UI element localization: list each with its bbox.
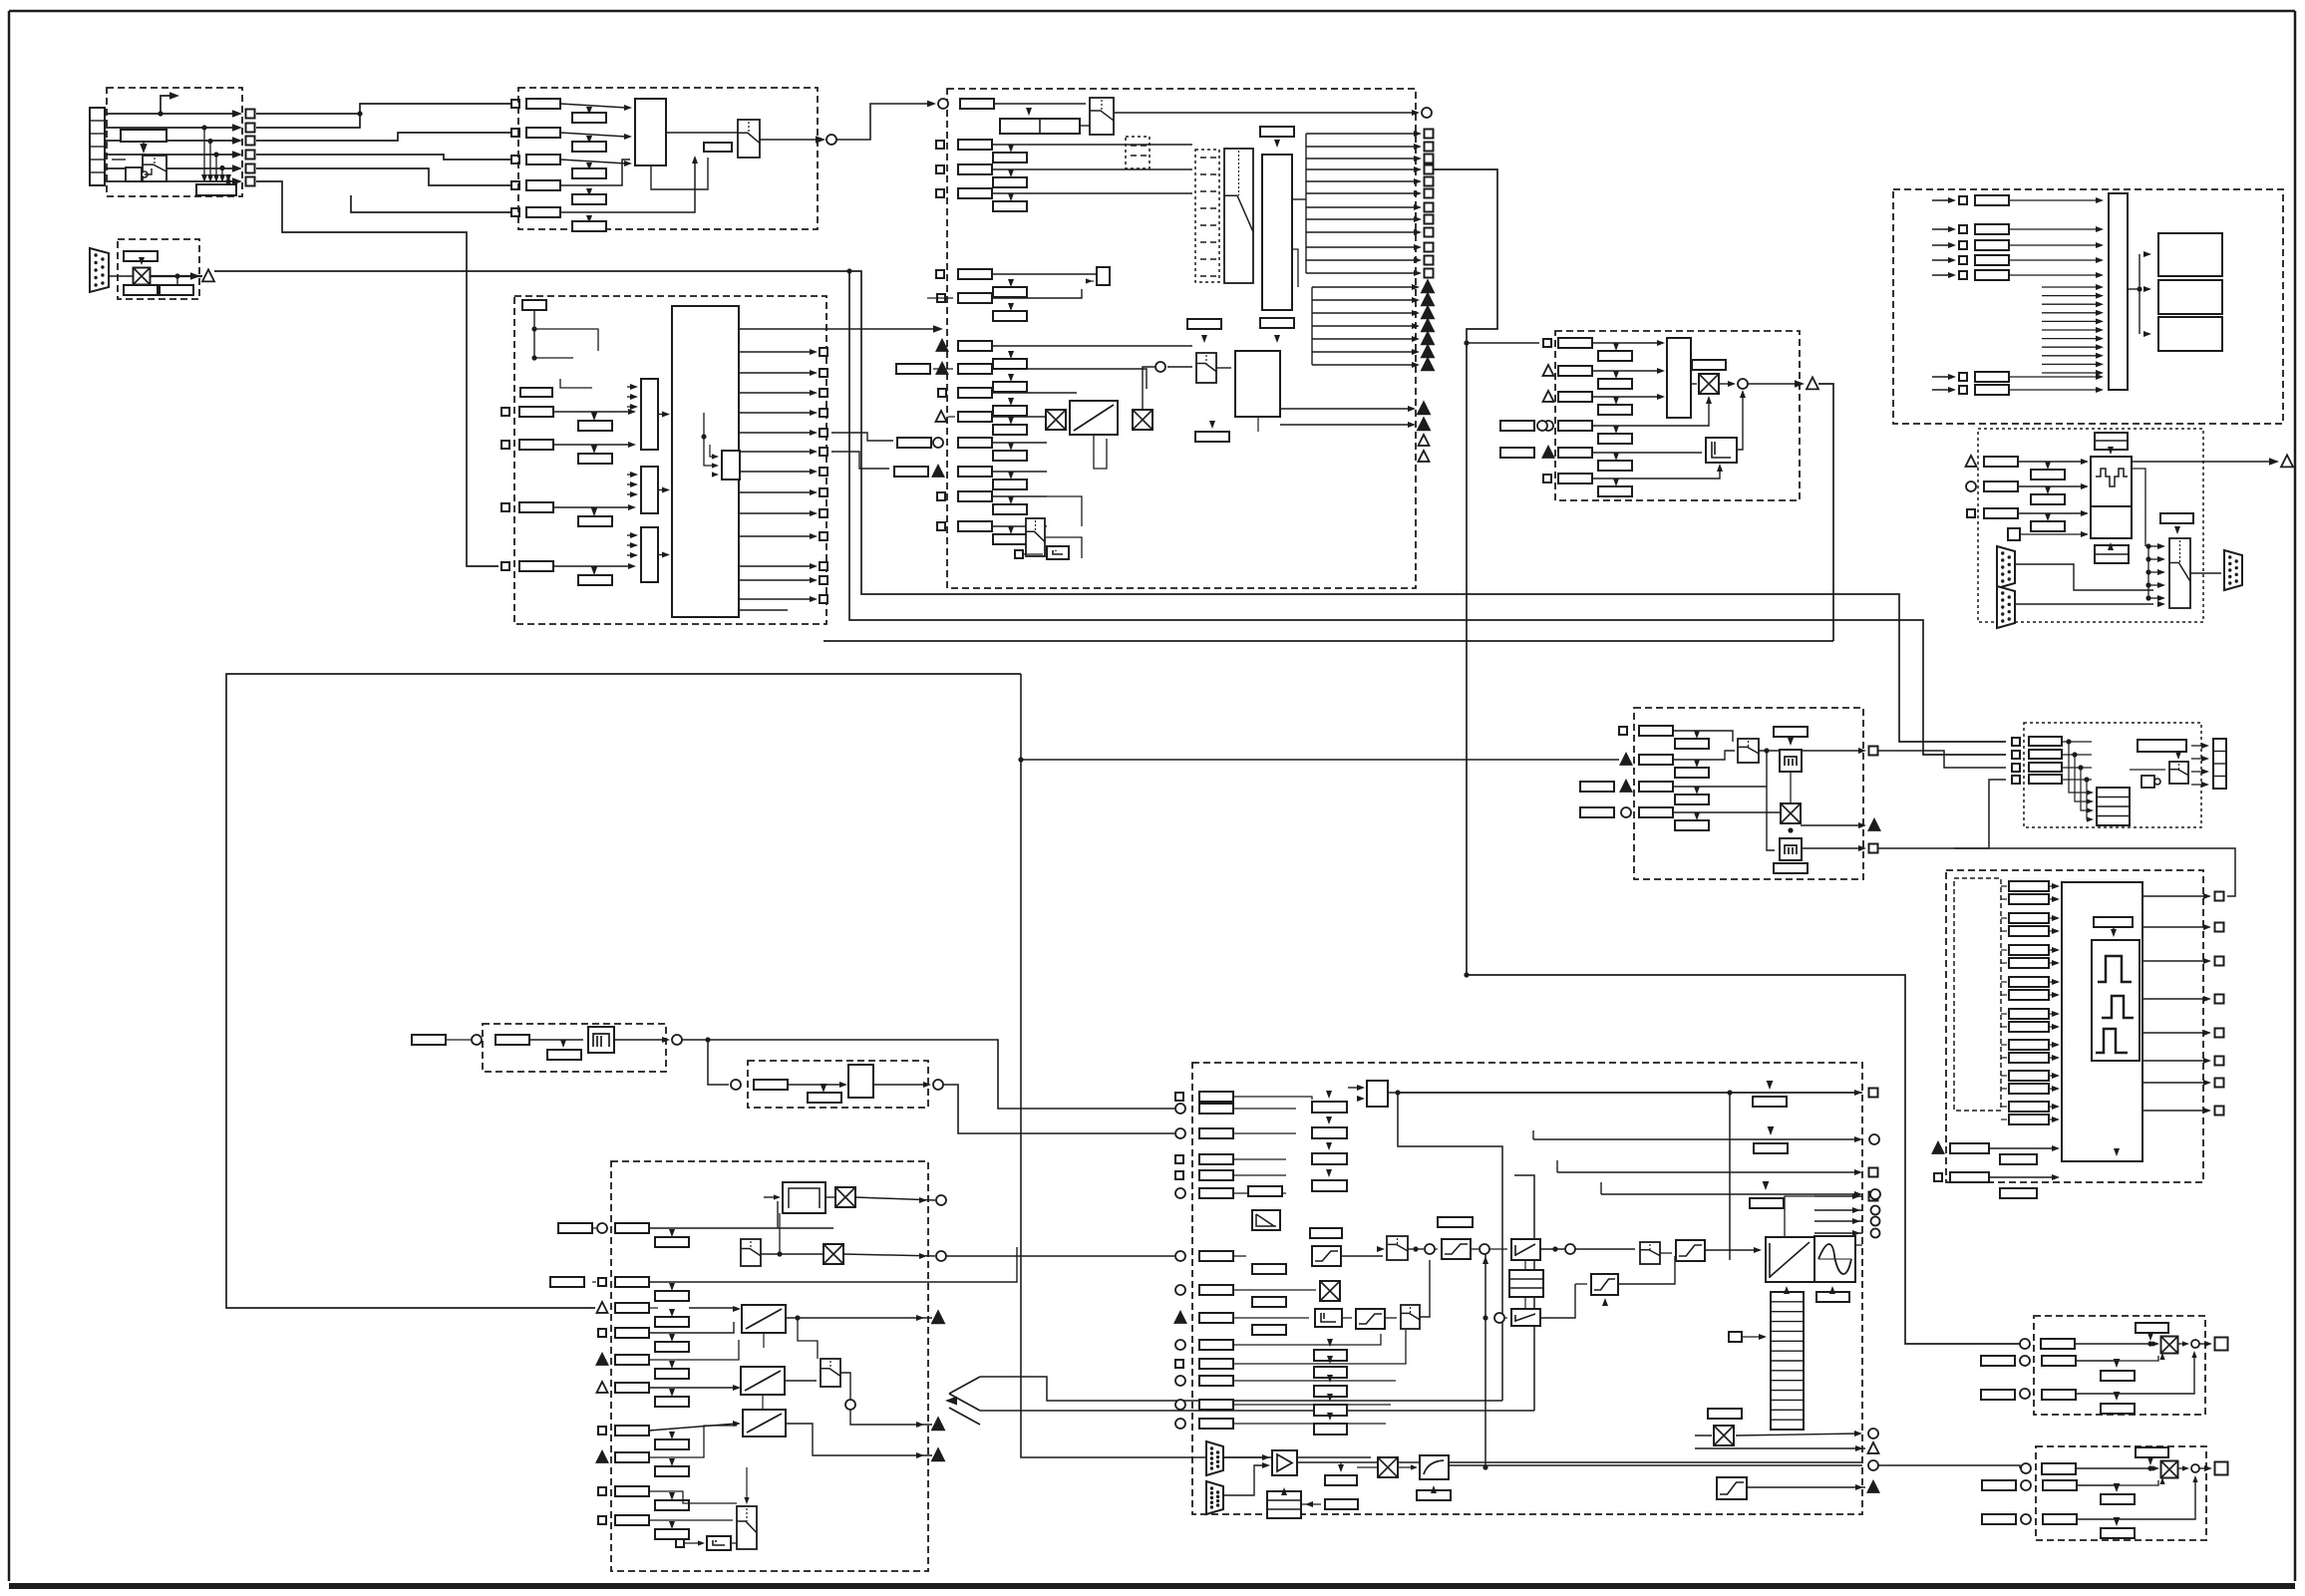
tl arrow down4 — [1694, 812, 1700, 820]
parameter box seq3 — [958, 164, 992, 174]
input connector cc1 — [1175, 1093, 1183, 1101]
status collector tall — [2109, 193, 2128, 390]
parameter box fs10 — [615, 1515, 649, 1525]
parameter box spd3 — [1558, 392, 1592, 402]
wire model in — [764, 1196, 779, 1198]
enc arrow 1 — [2081, 459, 2089, 465]
encoder eval block — [2091, 457, 2132, 506]
parameter box enc out — [2160, 513, 2193, 523]
wire os2 r1 — [2076, 1467, 2157, 1469]
parameter box encb2 — [2031, 494, 2065, 504]
wire cw out 8 — [739, 491, 814, 493]
wire B3 row — [256, 133, 511, 141]
modulator main block — [2062, 882, 2142, 1161]
parameter box pwm7 — [2009, 977, 2049, 987]
modulator group — [1946, 870, 2203, 1182]
wire pwm6 — [2001, 962, 2007, 964]
wire sw stub 7 — [2042, 338, 2100, 340]
cs arrow 4 — [1326, 1169, 1332, 1177]
wire tq row4 — [1601, 1193, 1858, 1195]
sw coll arrow 1 — [2096, 197, 2104, 203]
os1 diamond3 — [2114, 1392, 2121, 1401]
sw stub arrow 3 — [2096, 301, 2104, 307]
parameter box seqb3 — [993, 177, 1027, 187]
arrowhead trig 4 — [1412, 323, 1420, 329]
wire fs ext1 — [592, 1227, 596, 1229]
wire B4 row — [256, 155, 511, 160]
parameter box r4b — [578, 575, 612, 585]
wire terminal row5 — [105, 167, 239, 169]
offset table — [1267, 1491, 1301, 1518]
enc mux arrow 3 — [2157, 569, 2165, 575]
tap arrow 3 — [213, 174, 219, 182]
fs arrow down 2 — [669, 1283, 675, 1291]
wire tf vert — [1785, 1196, 1814, 1237]
parameter box fl1 — [754, 1080, 788, 1090]
collector out c1 — [662, 412, 670, 418]
wire fs mult route — [946, 1255, 1174, 1257]
wire terminal row1 — [105, 113, 239, 115]
wire tf o2 — [1814, 1209, 1862, 1211]
wire cw out 11 — [739, 565, 814, 567]
ramp generator 3 — [743, 1410, 786, 1436]
vdc arrow 2 — [2087, 798, 2094, 803]
arrowhead tq1 — [1854, 1090, 1862, 1096]
pwm arrow 1 — [2052, 883, 2060, 889]
input connector seq2 — [936, 141, 944, 149]
wire B6 feed — [256, 181, 498, 566]
arrowhead row4 — [232, 151, 242, 159]
terminal pre1 — [937, 340, 948, 351]
arrow into collector r2 — [628, 442, 636, 448]
wire pwm out 1 — [2142, 895, 2207, 897]
wire tf o4 — [1814, 1232, 1862, 1234]
D-sub current U — [1206, 1441, 1223, 1475]
connector tf2 — [1871, 1206, 1880, 1215]
arrowhead spd out — [1795, 380, 1805, 388]
wire spd1 — [1592, 342, 1661, 344]
parameter box vdcw — [2138, 740, 2186, 752]
wire seq mux out — [1114, 112, 1416, 114]
tq arrow down1 — [1767, 1081, 1774, 1090]
wire sw p2 — [2009, 228, 2100, 230]
saturation block cc6 — [1717, 1477, 1747, 1499]
enc mux in 5 — [2148, 597, 2161, 599]
wire bott — [684, 1542, 701, 1544]
arrowhead os2 — [2204, 1465, 2212, 1471]
wire status out 5 — [1306, 180, 1418, 182]
junction fs — [777, 1251, 782, 1256]
wire low fb — [1257, 417, 1259, 432]
junction cc top — [1395, 1090, 1400, 1095]
parameter box tl2 — [1639, 755, 1673, 765]
stub r2 — [593, 445, 595, 447]
parameter box pwm8 — [2009, 990, 2049, 1000]
parameter box fs7 — [615, 1426, 649, 1436]
arrowhead sp out — [816, 136, 825, 144]
wire os2 out — [2178, 1467, 2187, 1469]
wire pwm4 — [2001, 930, 2007, 932]
wire trig out 7 — [1312, 364, 1416, 366]
arrowhead row1 — [232, 110, 242, 118]
wire fs1 — [649, 1227, 833, 1229]
fan arrow c20 — [630, 472, 638, 478]
multiplier os2 — [2161, 1461, 2178, 1478]
fan arrow c22 — [630, 491, 638, 497]
parameter box fs8 — [615, 1452, 649, 1462]
parameter box pwm11 — [2009, 1040, 2049, 1050]
wire merge feed2 — [980, 1410, 1534, 1412]
model arrow — [774, 1194, 781, 1199]
wire bus E — [226, 674, 1021, 1308]
terminal fx2 — [1869, 819, 1880, 830]
trig bus vert — [1311, 287, 1313, 365]
display box cs1 — [1312, 1102, 1347, 1113]
sat1 arrow — [1377, 1246, 1385, 1252]
junction cct — [1413, 1246, 1418, 1251]
wire blk fb — [651, 158, 708, 189]
wire fs6 — [649, 1387, 737, 1389]
parameter box pwm6 — [2009, 958, 2049, 968]
wire vdc drop 2 — [2075, 755, 2090, 801]
parameter box r4 — [519, 561, 553, 571]
parameter box pre3b — [993, 406, 1027, 416]
pwm bot arrow1 — [2114, 1148, 2120, 1156]
terminal fs6 — [597, 1382, 608, 1393]
parameter box slip ext — [412, 1035, 446, 1045]
wire flag — [1087, 280, 1094, 282]
vdc output column — [2213, 739, 2226, 789]
wire vdc4 — [2062, 779, 2092, 781]
arrowhead merge — [945, 1397, 957, 1406]
fan stub c12 — [627, 406, 630, 408]
sqrt arrow up — [1431, 1485, 1437, 1493]
parameter box cc12 — [1199, 1376, 1233, 1386]
wire sel row 1 — [560, 104, 626, 108]
parameter box os2 b3 — [2101, 1528, 2135, 1538]
wire vdco2 — [2191, 758, 2205, 760]
tap arrow 5 — [225, 174, 231, 182]
setpoint mux fs — [741, 1239, 761, 1266]
terminal triangle 7 — [1422, 358, 1434, 370]
binector out B1 — [246, 110, 255, 119]
display box 3 — [2158, 317, 2222, 351]
wire trig out 4 — [1312, 325, 1416, 327]
parameter box spd2 — [1558, 366, 1592, 376]
connector sw 5 — [1959, 271, 1967, 279]
wire sw p3 — [2009, 244, 2100, 246]
parameter box fsb4 — [655, 1342, 689, 1352]
wire os1 r2b — [2117, 1356, 2158, 1361]
stub r1 — [593, 412, 595, 414]
wire os1 r1 — [2075, 1343, 2157, 1345]
diamond arrow r2 — [591, 445, 598, 454]
connector os1 in2 — [2020, 1356, 2030, 1366]
input connector r1 — [501, 408, 509, 416]
connector cw out 2 — [820, 369, 827, 377]
os1 top arrow — [2147, 1333, 2153, 1341]
arrowhead pwm 6 — [2203, 1058, 2211, 1064]
dashes inner B — [1200, 157, 1216, 159]
connector cw out 10 — [820, 532, 827, 540]
dashes inner B — [1200, 224, 1216, 226]
arrowhead vdco3 — [2201, 769, 2209, 775]
parameter box spd6 — [1558, 474, 1592, 483]
enc up arrow — [2108, 542, 2114, 550]
low3 arrow down — [1209, 421, 1215, 429]
fl arrow — [839, 1082, 847, 1088]
low2 arrow down — [1274, 335, 1280, 343]
connector fl in — [731, 1080, 741, 1090]
terminal fs5 — [597, 1354, 608, 1365]
wire pwm3 — [2001, 917, 2007, 919]
terminal ext2 — [933, 466, 944, 477]
pulse table — [1771, 1292, 1804, 1430]
input connector sel r2 — [511, 129, 519, 137]
fs arrow down 5 — [669, 1361, 675, 1369]
junction vdc3 — [2078, 765, 2083, 770]
wire cw to ext1 — [831, 433, 893, 441]
parameter box tl4 — [1639, 807, 1673, 817]
connector status 10 — [1425, 243, 1434, 252]
connector os1 sum — [2191, 1340, 2199, 1348]
wire mux out fs — [761, 1253, 823, 1255]
parameter box enc3 — [1984, 508, 2018, 518]
terminal spd3 — [1543, 391, 1554, 402]
arrowhead tf3 — [1852, 1218, 1860, 1224]
wire cw out 9 — [739, 512, 814, 514]
tap dot 3 — [213, 152, 218, 157]
wire nest vert2 — [1514, 1175, 1534, 1411]
wire dsubU — [1223, 1456, 1268, 1458]
wire status out 12 — [1306, 272, 1418, 274]
control word group — [514, 296, 826, 624]
parameter box fs3 — [615, 1303, 649, 1313]
wire cw out 3 — [739, 392, 814, 394]
parameter box pwm9 — [2009, 1009, 2049, 1019]
arrowhead cw 8 — [810, 489, 818, 495]
junction flux — [1764, 748, 1769, 753]
pre arrow down3 — [1008, 398, 1014, 406]
wire status out 3 — [1306, 158, 1418, 160]
mid arrow down5 — [1008, 526, 1014, 534]
arrowhead into main — [927, 101, 936, 108]
wire fs5 — [649, 1340, 739, 1360]
arrowhead rg1 — [916, 1315, 924, 1321]
parameter box P1000 — [704, 143, 732, 152]
wire switch out — [760, 139, 822, 141]
wire vdc2 — [2062, 754, 2092, 756]
enc dot 2 — [2145, 556, 2150, 561]
cs arrow 2 — [1326, 1117, 1332, 1124]
amp tbl arrow — [1305, 1501, 1313, 1507]
parameter box cc5 — [1199, 1170, 1233, 1180]
parameter box midb2 — [993, 451, 1027, 461]
arrow into collector r3 — [628, 504, 636, 510]
wire flux vert — [1767, 751, 1775, 850]
parameter box fs ext1 — [558, 1223, 592, 1233]
parameter box pre1b — [993, 359, 1027, 369]
wire rg12 link — [763, 1333, 765, 1348]
parameter box pwmbb2 — [2000, 1188, 2037, 1198]
parameter box ext1 — [897, 438, 931, 448]
parameter box pwmb1 — [1950, 1143, 1989, 1153]
connector tq2 out — [1869, 1134, 1879, 1144]
wire rgm out — [850, 1410, 932, 1425]
wire seq3 — [992, 168, 1192, 170]
wire trig out 5 — [1312, 338, 1416, 340]
pwm arrow 2 — [2052, 896, 2060, 902]
wire pwm2b — [2049, 898, 2054, 900]
parameter box os1 b3 — [2101, 1404, 2135, 1414]
wire m2 up — [1143, 367, 1154, 410]
wire cw branch1 — [534, 329, 598, 351]
collector block c2 — [641, 467, 658, 513]
status word group — [1893, 189, 2283, 424]
wire sw out mid — [2128, 288, 2140, 290]
sw coll arrow 2 — [2096, 226, 2104, 232]
wire pwm11b — [2049, 1044, 2054, 1046]
parameter box cc mid — [1438, 1217, 1473, 1227]
terminal triangle 1 — [1422, 280, 1434, 292]
parameter box fsb8 — [655, 1466, 689, 1476]
logic NAND — [126, 167, 148, 181]
wire seq1 — [994, 103, 1086, 105]
D-sub encoder in A — [1997, 546, 2015, 588]
connector cw out 13 — [820, 595, 827, 603]
D-sub encoder in B — [1997, 586, 2015, 628]
multiplier os1 — [2161, 1337, 2178, 1354]
parameter box cc6 — [1199, 1188, 1233, 1198]
junction slip — [705, 1037, 710, 1042]
sel arrow down 5 — [586, 215, 592, 223]
parameter box pwm2 — [2009, 894, 2049, 904]
connector status 12 — [1425, 269, 1434, 278]
wire terminal row6 — [105, 180, 239, 182]
arrowhead trig 1 — [1412, 284, 1420, 290]
parameter box spdb5 — [1598, 461, 1632, 471]
enc mux in 3 — [2148, 571, 2161, 573]
parameter box os1b — [2042, 1356, 2076, 1366]
speed ctrl block — [1667, 338, 1691, 418]
Vdc max controller group — [2024, 723, 2201, 827]
parameter box os2 top — [2136, 1447, 2168, 1457]
wire ccpi2 — [1504, 1317, 1507, 1319]
display box cs22 — [1314, 1367, 1347, 1378]
aux square enc — [2008, 528, 2020, 540]
connector cw out 1 — [820, 348, 827, 356]
wire bott up — [746, 1467, 748, 1502]
ramp function block — [1070, 401, 1118, 435]
junction spd feed — [1464, 340, 1469, 345]
wire icn — [1357, 1466, 1378, 1468]
pwm arrow 13 — [2052, 1073, 2060, 1079]
arrowhead sw 5 — [1948, 272, 1956, 278]
fan stub c31 — [627, 544, 630, 546]
wire terminal row4 — [105, 154, 239, 156]
pwm bot arr2 — [2052, 1174, 2060, 1180]
sw stub arrow 4 — [2096, 310, 2104, 316]
connector in r1 — [938, 99, 948, 109]
input connector vdc2 — [2012, 751, 2020, 759]
parameter box top — [522, 300, 546, 310]
wire collector out c3 — [658, 554, 662, 556]
parameter box sel5 — [526, 207, 560, 217]
spd arrow down6 — [1613, 479, 1619, 486]
terminal low1 — [1418, 402, 1430, 414]
spd arr4 — [1706, 396, 1712, 404]
ptab arrow — [1759, 1334, 1767, 1340]
dashes inner B — [1200, 190, 1216, 192]
parameter box midb4 — [993, 504, 1027, 514]
encoder output mux — [2169, 538, 2190, 608]
parameter box cc13 — [1199, 1400, 1233, 1410]
connector status 1 — [1425, 130, 1434, 139]
os2 arrow — [2152, 1465, 2159, 1470]
wire cc o2 — [1695, 1447, 1865, 1449]
wire enc aux — [2020, 533, 2087, 535]
os1 r3 arrow — [2191, 1351, 2196, 1358]
wire r3 — [553, 506, 628, 508]
parameter box stat — [1260, 127, 1294, 137]
wire rg1 out — [786, 1317, 932, 1319]
parameter box seq1 — [960, 99, 994, 109]
parameter box sel4 — [526, 180, 560, 190]
parameter box os1 b2 — [2101, 1371, 2135, 1381]
fs arrow down 10 — [669, 1521, 675, 1529]
fs arrow down 4 — [669, 1334, 675, 1342]
connector os1 out — [2215, 1338, 2228, 1351]
wire pwm16 — [2001, 1118, 2007, 1120]
arrowhead fx2 — [1858, 822, 1866, 828]
wire sw p1 — [2009, 199, 2100, 201]
wire vdc drop 1 — [2069, 742, 2090, 793]
wire cc6 — [1233, 1192, 1286, 1194]
wire cw branch2 — [534, 357, 573, 359]
sw out arrow 2 — [2143, 286, 2151, 292]
arrowhead cw top — [933, 325, 943, 333]
binector out B2 — [246, 124, 255, 133]
parameter box pre2b — [993, 382, 1027, 392]
wire sw branch — [2139, 254, 2140, 334]
parameter box r3b — [578, 516, 612, 526]
arrowhead status 4 — [1414, 166, 1422, 172]
arrowhead sw 3 — [1948, 242, 1956, 248]
wire P0701 to switch — [143, 142, 145, 150]
wire tl1 — [1673, 731, 1733, 742]
wire os2 r3 — [2076, 1477, 2195, 1519]
wire pwm6b — [2049, 962, 2054, 964]
os2 r3 arrow — [2192, 1475, 2197, 1482]
wire cw to ext2 — [831, 452, 889, 469]
transform block — [1766, 1237, 1814, 1282]
cs arrow 3 — [1326, 1142, 1332, 1150]
tq arrow down2 — [1768, 1126, 1775, 1135]
diamond arrow r4 — [591, 566, 598, 575]
display box ccb3 — [1252, 1325, 1286, 1335]
spd arr2 — [1657, 368, 1665, 374]
arrowhead pwm 5 — [2203, 1030, 2211, 1036]
parameter box spdb3 — [1598, 405, 1632, 415]
wire sw stub 9 — [2042, 355, 2100, 357]
wire block to switch — [666, 132, 738, 134]
input connector seq5 — [936, 270, 944, 278]
arrowhead cw 13 — [810, 596, 818, 602]
wire sqrt up — [1484, 1254, 1486, 1467]
terminal triangle 3 — [1422, 306, 1434, 318]
wire fsB out — [843, 1254, 935, 1256]
parameter box mid1 — [958, 412, 992, 422]
